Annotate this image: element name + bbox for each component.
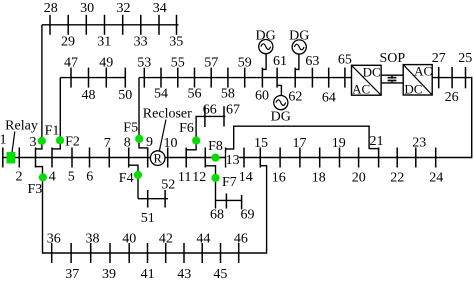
bus 62 tick (294, 68, 296, 88)
bus 13 tick (225, 148, 227, 168)
wire bus9-bus53 riser jog (139, 147, 148, 149)
svg-text:64: 64 (322, 91, 336, 106)
svg-text:28: 28 (44, 1, 58, 16)
svg-text:46: 46 (234, 231, 248, 246)
svg-text:DG: DG (289, 28, 309, 43)
wire branch bus47-bus50 (60, 77, 126, 79)
bus 19 tick (339, 148, 341, 168)
wire bus8-bus51 riser (137, 165, 139, 199)
svg-text:12: 12 (192, 170, 206, 185)
bus 49 tick (105, 68, 107, 88)
svg-text:54: 54 (154, 87, 168, 102)
bus 35 tick (176, 15, 178, 35)
svg-text:21: 21 (370, 134, 384, 149)
svg-text:AC: AC (352, 82, 370, 97)
svg-text:1: 1 (0, 133, 7, 148)
svg-text:8: 8 (124, 135, 131, 150)
bus 40 tick (128, 243, 130, 263)
svg-text:34: 34 (153, 1, 167, 16)
svg-text:23: 23 (412, 136, 426, 151)
bus 52 tick (164, 190, 166, 208)
wire bus11-bus66 riser (195, 116, 197, 150)
wire bus12-bus68 riser (215, 165, 217, 208)
wire DG-bus60 jog (262, 68, 266, 70)
bus 54 tick (160, 68, 162, 88)
SOP converter VSC1 DC/AC (352, 64, 382, 96)
svg-text:F4: F4 (119, 171, 134, 186)
wire tie bus25 column (471, 78, 473, 159)
svg-text:36: 36 (47, 231, 61, 246)
wire DG-bus61 jog (277, 84, 281, 86)
bus 18 tick (319, 148, 321, 168)
wire tie bus13-bus21 top (233, 125, 370, 127)
fault F2 dot (56, 136, 64, 144)
bus 4 tick (51, 148, 53, 168)
fault F7 dot (211, 174, 219, 182)
bus 43 tick (183, 243, 185, 263)
svg-text:69: 69 (241, 208, 255, 223)
bus 13 label background (226, 151, 239, 167)
wire DG-bus60 stub (265, 54, 267, 70)
svg-text:39: 39 (102, 267, 116, 281)
svg-text:13: 13 (226, 153, 240, 168)
bus 45 tick (220, 243, 222, 263)
svg-text:55: 55 (171, 55, 185, 70)
svg-text:58: 58 (221, 87, 235, 102)
wire DG-bus62 stub (298, 54, 300, 70)
DG generator at bus 60 (259, 40, 273, 54)
wire SOP dc-link lower rail (381, 82, 403, 84)
svg-text:51: 51 (141, 211, 155, 226)
bus 26 tick (451, 67, 453, 88)
svg-text:56: 56 (188, 87, 202, 102)
bus 57 tick (210, 68, 212, 88)
bus 68 tick (225, 194, 227, 209)
svg-text:47: 47 (64, 55, 78, 70)
wire bus3-bus28 riser (41, 25, 43, 150)
svg-text:14: 14 (239, 170, 253, 185)
svg-text:61: 61 (273, 54, 287, 69)
bus 9 tick (147, 148, 149, 168)
svg-text:60: 60 (255, 88, 269, 103)
bus 5 tick (71, 148, 73, 168)
bus 65 tick (344, 68, 346, 88)
svg-text:30: 30 (80, 1, 94, 16)
bus 42 tick (165, 243, 167, 263)
bus 20 tick (358, 148, 360, 168)
fault F5 dot (135, 135, 143, 143)
wire bus3-bus36 riser (42, 166, 44, 254)
bus 59 tick (244, 68, 246, 88)
svg-text:40: 40 (122, 231, 136, 246)
svg-text:F1: F1 (45, 123, 60, 138)
svg-text:DC: DC (363, 64, 381, 79)
fault F3 dot (39, 173, 47, 181)
svg-text:F3: F3 (28, 182, 43, 197)
bus 48 tick (88, 68, 90, 88)
SOP converter VSC2 AC/DC (403, 63, 432, 96)
bus 51 tick (147, 190, 149, 208)
wire SOP dc-link upper rail (381, 74, 403, 76)
svg-text:52: 52 (161, 178, 175, 193)
svg-text:15: 15 (254, 136, 268, 151)
wire branch bus68-bus69 (216, 199, 242, 201)
svg-text:20: 20 (352, 170, 366, 185)
bus 61 tick (276, 68, 278, 88)
bus 27 tick (438, 67, 440, 88)
svg-text:17: 17 (293, 136, 307, 151)
wire bus11-bus66 jog (186, 149, 196, 151)
svg-text:27: 27 (432, 51, 446, 66)
wire bus15-bus46 tie riser (266, 165, 268, 254)
svg-text:10: 10 (164, 136, 178, 151)
svg-text:19: 19 (332, 136, 346, 151)
bus 60 tick (261, 68, 263, 88)
bus 32 tick (122, 15, 124, 35)
wire branch bus27-bus25 (432, 77, 472, 79)
svg-text:59: 59 (238, 55, 252, 70)
bus 69 tick (241, 195, 243, 209)
bus 41 tick (147, 243, 149, 263)
relay pointer line (12, 132, 15, 153)
svg-text:48: 48 (82, 88, 96, 103)
svg-text:33: 33 (134, 34, 148, 49)
svg-text:F5: F5 (123, 121, 138, 136)
svg-text:F7: F7 (222, 175, 237, 190)
fault F4 dot (134, 171, 142, 179)
svg-text:3: 3 (30, 135, 37, 150)
svg-text:57: 57 (204, 55, 218, 70)
svg-text:6: 6 (86, 170, 93, 185)
bus 31 tick (104, 15, 106, 35)
svg-text:41: 41 (141, 267, 155, 281)
bus 14 tick (243, 148, 245, 168)
bus 8 tick (128, 148, 130, 168)
svg-text:37: 37 (65, 267, 79, 281)
wire bus12-bus68 jog (205, 165, 215, 167)
bus 2 tick (18, 148, 20, 168)
bus 44 tick (201, 243, 203, 263)
recloser pointer line (159, 120, 166, 152)
relay (green square at bus 1) (7, 152, 16, 164)
svg-text:32: 32 (117, 1, 131, 16)
bus 10 tick (167, 148, 169, 168)
wire bus21 tie jog (369, 148, 379, 150)
bus 34 tick (158, 15, 160, 35)
svg-text:SOP: SOP (379, 51, 405, 66)
bus 64 tick (328, 68, 330, 88)
svg-text:5: 5 (68, 170, 75, 185)
svg-text:42: 42 (159, 231, 173, 246)
bus 21 tick (378, 148, 380, 168)
svg-text:38: 38 (86, 231, 100, 246)
svg-text:26: 26 (445, 90, 459, 105)
svg-text:16: 16 (272, 170, 286, 185)
bus 46 tick (238, 243, 240, 263)
wire DG-bus61 stub (280, 85, 282, 96)
bus 30 tick (85, 15, 87, 35)
DG generator at bus 62 (292, 40, 306, 54)
svg-text:7: 7 (104, 136, 111, 151)
wire bus21 tie riser (368, 126, 370, 150)
svg-text:18: 18 (312, 170, 326, 185)
bus 58 tick (227, 68, 229, 88)
wire bus4-bus47 riser jog (52, 148, 60, 150)
bus 24 tick (435, 148, 437, 168)
svg-text:63: 63 (305, 54, 319, 69)
recloser R circle between bus 9 and 10 (150, 151, 165, 166)
svg-text:67: 67 (226, 103, 240, 118)
bus 28 tick (49, 15, 51, 35)
fault F6 dot (192, 137, 200, 145)
wire branch bus28-bus35 (42, 24, 179, 26)
bus 25 tick (465, 67, 467, 88)
bus 33 tick (140, 15, 142, 35)
fault F8 dot (211, 154, 219, 162)
wire bus13 tie jog (226, 148, 234, 150)
wire bus3-bus36 riser jog (36, 166, 43, 168)
svg-text:22: 22 (390, 170, 404, 185)
wire main feeder bus1-bus24 (2, 157, 472, 159)
svg-text:49: 49 (99, 55, 113, 70)
svg-text:11: 11 (178, 170, 191, 185)
bus 22 tick (396, 148, 398, 168)
svg-text:DC: DC (404, 81, 422, 96)
bus 29 tick (67, 15, 69, 35)
DG generator at bus 61 (274, 96, 288, 110)
wire branch bus51-bus52 (138, 198, 168, 200)
bus 11 tick (185, 148, 187, 168)
svg-text:4: 4 (49, 170, 56, 185)
svg-text:44: 44 (196, 231, 210, 246)
svg-text:F2: F2 (65, 134, 80, 149)
wire bus8-bus51 jog (129, 164, 138, 166)
svg-text:50: 50 (118, 88, 132, 103)
bus 7 tick (108, 148, 110, 168)
bus 3 tick (35, 148, 37, 168)
bus 53 tick (143, 68, 145, 88)
svg-text:29: 29 (61, 34, 75, 49)
bus 39 tick (109, 243, 111, 263)
capacitor SOP dc-link (388, 75, 397, 83)
bus 55 tick (177, 68, 179, 88)
svg-text:35: 35 (169, 34, 183, 49)
svg-text:45: 45 (213, 267, 227, 281)
bus 67 tick (223, 106, 225, 126)
fault F1 dot (38, 137, 46, 145)
wire branch bus53-bus65 (139, 77, 352, 79)
svg-text:R: R (154, 152, 163, 166)
wire branch bus36-bus46 (43, 252, 267, 254)
bus 12 tick (204, 148, 206, 168)
svg-text:31: 31 (97, 34, 111, 49)
bus 16 tick (279, 148, 281, 168)
svg-text:24: 24 (429, 170, 443, 185)
wire bus9-bus53 riser (138, 78, 140, 149)
bus 66 tick (204, 106, 206, 127)
svg-text:9: 9 (146, 135, 153, 150)
svg-text:Relay: Relay (5, 119, 38, 134)
svg-text:53: 53 (137, 55, 151, 70)
wire bus4-bus47 riser (59, 78, 61, 150)
svg-text:DG: DG (255, 28, 275, 43)
svg-text:25: 25 (458, 51, 472, 66)
wire bus15-bus46 tie jog (260, 165, 266, 167)
bus 56 tick (194, 68, 196, 88)
wire bus3-bus28 riser jog (36, 148, 42, 150)
bus 6 tick (89, 148, 91, 168)
bus 17 tick (299, 148, 301, 168)
bus 50 tick (124, 68, 126, 88)
bus 63 tick (311, 68, 313, 88)
svg-text:68: 68 (210, 208, 224, 223)
svg-text:2: 2 (16, 170, 23, 185)
svg-text:DG: DG (271, 110, 291, 125)
svg-text:Recloser: Recloser (143, 107, 192, 122)
bus 38 tick (90, 243, 92, 263)
wire bus13 tie riser (233, 126, 235, 150)
svg-text:62: 62 (288, 89, 302, 104)
wire branch bus66-bus67 (195, 115, 225, 117)
svg-text:43: 43 (177, 267, 191, 281)
svg-text:65: 65 (338, 52, 352, 67)
svg-text:AC: AC (414, 63, 432, 78)
bus 23 tick (415, 148, 417, 168)
wire DG-bus62 jog (295, 68, 299, 70)
svg-text:66: 66 (203, 103, 217, 118)
bus 1 tick (2, 148, 4, 168)
bus 36 tick (51, 243, 53, 263)
bus 47 tick (70, 68, 72, 88)
svg-text:F6: F6 (179, 121, 194, 136)
svg-text:F8: F8 (208, 139, 223, 154)
bus 15 tick (259, 148, 261, 168)
bus 37 tick (70, 243, 72, 263)
